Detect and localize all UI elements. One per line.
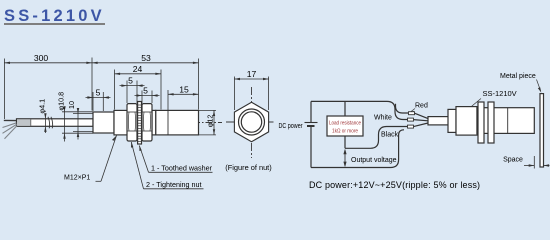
svg-text:10: 10	[67, 101, 76, 109]
dimension 300	[4, 59, 92, 120]
svg-text:SS-1210V: SS-1210V	[4, 7, 105, 25]
svg-text:DC power: DC power	[279, 123, 304, 130]
sensor barrel	[477, 108, 534, 134]
dimension phi 12 (barrel)	[199, 110, 217, 134]
space dimension	[503, 156, 549, 169]
dimension 10 (collar rear pilot)	[73, 109, 93, 140]
crosshair centerlines	[226, 87, 274, 158]
svg-text:1 - Toothed washer: 1 - Toothed washer	[151, 164, 213, 173]
svg-text:300: 300	[34, 53, 49, 63]
svg-text:φ12: φ12	[206, 115, 215, 128]
svg-text:5: 5	[96, 88, 101, 98]
sensor rear block	[456, 107, 477, 136]
nut chamfer circle	[239, 109, 265, 135]
dimension 5 (nut 2)	[135, 91, 160, 104]
cable break mark	[48, 117, 53, 129]
svg-text:5: 5	[128, 76, 133, 86]
metal piece label + leader	[500, 73, 541, 93]
nut 2 (tightening nut)	[142, 104, 152, 141]
sensor cable (right)	[428, 117, 449, 125]
svg-text:Black: Black	[381, 132, 399, 139]
barrel seam	[507, 108, 509, 134]
thread stub right	[152, 110, 156, 134]
svg-text:φ10.8: φ10.8	[57, 92, 66, 111]
dimension phi 10.8 (collar)	[62, 107, 93, 142]
dimension 5 (nut 1)	[120, 81, 145, 104]
collar body (dia 10.8)	[93, 112, 114, 133]
dimension 5 (collar)	[86, 92, 111, 111]
dimension 53	[92, 58, 199, 111]
svg-text:(Figure of nut): (Figure of nut)	[225, 163, 271, 172]
dimension 17	[234, 77, 268, 111]
dimension 24	[115, 70, 162, 110]
svg-text:5: 5	[143, 86, 148, 96]
lead wires fan	[3, 120, 18, 138]
svg-text:Load resistance: Load resistance	[329, 120, 361, 126]
svg-text:17: 17	[247, 69, 257, 79]
svg-text:53: 53	[141, 53, 151, 63]
svg-text:White: White	[374, 114, 392, 121]
svg-text:Space: Space	[503, 157, 523, 164]
hexagon nut outline	[234, 102, 268, 142]
svg-text:φ4.1: φ4.1	[38, 99, 47, 114]
svg-text:SS-1210V: SS-1210V	[483, 89, 517, 98]
metal piece	[540, 94, 544, 167]
nut plate 2	[488, 102, 494, 143]
leader M12xP1	[64, 136, 117, 182]
nut hole circle	[241, 112, 261, 132]
sensor body (right): boot	[448, 109, 456, 132]
svg-text:24: 24	[133, 64, 143, 74]
svg-text:Metal piece: Metal piece	[500, 73, 536, 80]
svg-text:15: 15	[179, 84, 189, 94]
output node wire to black lead	[345, 127, 408, 149]
toothed washer (hatched)	[138, 102, 142, 145]
centerline	[18, 122, 222, 124]
output voltage arrow	[343, 149, 346, 168]
leader 2 - Tightening nut	[131, 142, 204, 189]
nut 1	[127, 104, 137, 141]
red wire (open end)	[396, 104, 411, 113]
nut plate 1	[478, 102, 484, 143]
battery	[305, 101, 318, 167]
front barrel (dia 12)	[156, 110, 199, 134]
title SS-1210V	[4, 7, 105, 25]
threaded section	[114, 110, 128, 134]
lead terminals bundle	[408, 112, 429, 128]
top supply wire	[311, 101, 408, 119]
bottom 0V wire	[311, 130, 404, 168]
svg-text:2 - Tightening nut: 2 - Tightening nut	[146, 180, 202, 189]
svg-text:Red: Red	[415, 103, 428, 110]
barrel seam	[167, 110, 169, 134]
svg-text:DC power:+12V~+25V(ripple: 5%: DC power:+12V~+25V(ripple: 5% or less)	[309, 180, 480, 190]
SS-1210V label + leader	[472, 89, 517, 107]
load resistance box	[327, 101, 363, 148]
svg-text:1kΩ or more: 1kΩ or more	[332, 128, 358, 134]
leader 1 - Toothed washer	[139, 146, 212, 173]
cable	[17, 119, 94, 127]
dimension 15	[168, 90, 199, 110]
svg-text:Output voltage: Output voltage	[351, 157, 397, 164]
dimension phi 4.1 (cable)	[44, 115, 46, 134]
svg-text:M12×P1: M12×P1	[64, 175, 90, 182]
